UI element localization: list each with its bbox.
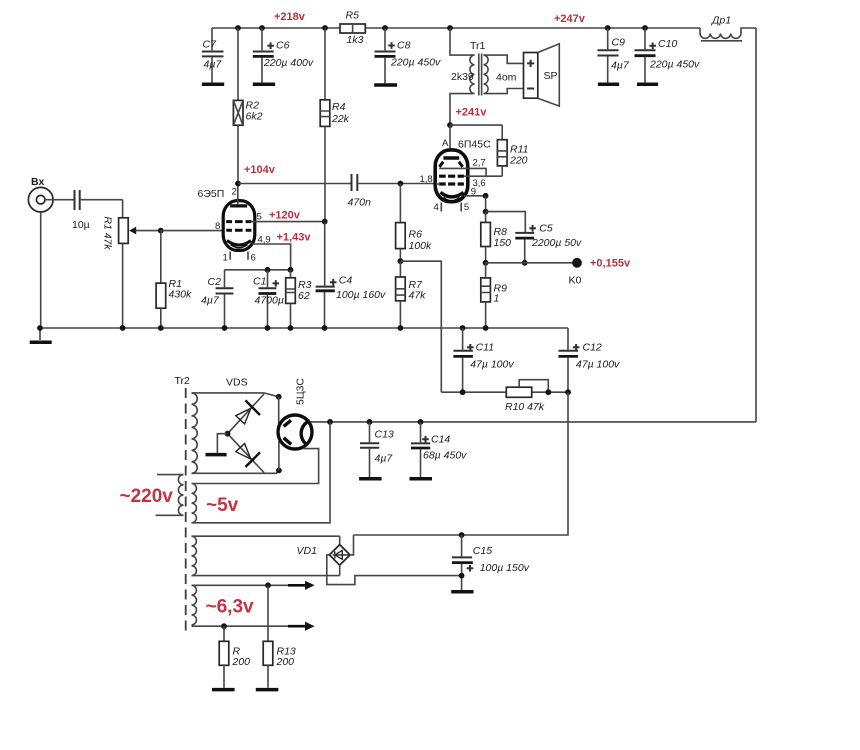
wire to C5 [486,212,526,232]
svg-text:4,9: 4,9 [258,235,271,246]
wire B+ column x568 [354,392,569,535]
svg-text:+104v: +104v [244,164,276,176]
node +104v [235,181,241,187]
svg-text:1,8: 1,8 [420,174,433,185]
node R6/R7 feedback junction [398,258,404,264]
node junction dot R2/rail [235,25,241,31]
wire bias top lead [192,535,340,537]
svg-text:5: 5 [257,212,262,223]
svg-text:1k3: 1k3 [347,34,364,46]
svg-text:430k: 430k [169,289,193,301]
wire 5v bottom to output [192,422,331,523]
resistor R1 430k [156,231,192,328]
wire HV top lead [192,393,279,397]
wire HV bottom lead [192,470,279,473]
wire +241v to R11 [450,124,502,126]
svg-text:Tr2: Tr2 [175,375,191,387]
transformer Tr1 [447,25,523,125]
resistor R 200 [212,626,250,689]
svg-text:9: 9 [471,186,476,197]
wire rectifier filament to 5v top [192,449,319,484]
svg-text:R6: R6 [409,229,423,241]
resistor R5 [340,10,365,47]
wire grid of first tube [158,228,164,234]
node K0 terminal [572,258,582,268]
node R8 bottom junction [483,260,489,266]
node ground rail junction Bx [37,325,43,331]
tube V2 6P45S outline [435,138,491,202]
node grid V2 junction [398,181,404,187]
svg-text:2200µ 50v: 2200µ 50v [531,237,582,249]
svg-text:+1,43v: +1,43v [277,232,312,244]
tube V1 6E5P outline [198,187,255,251]
svg-text:10µ: 10µ [72,219,90,231]
node ground rail junction R7 [398,325,404,331]
capacitor C1 [253,270,284,328]
svg-text:200: 200 [232,656,251,668]
wire 6.3v bottom lead [192,625,307,627]
node ground rail junction C2 [222,325,228,331]
node R13 tap junction [265,582,271,588]
svg-text:2k39: 2k39 [451,71,474,83]
transformer Tr2 5v winding [192,484,197,523]
connector Bx input [28,176,53,212]
svg-text:C11: C11 [476,342,494,354]
tube V1 heater pins 1,6 [230,252,248,260]
svg-text:220µ 450v: 220µ 450v [649,59,700,71]
capacitor C15 [451,532,530,592]
transformer Tr2 core [185,388,187,632]
wire R10 row [441,391,568,393]
capacitor C8 [374,25,441,85]
svg-text:C12: C12 [583,342,602,354]
svg-text:A: A [442,138,449,149]
arrow 6.3v bottom [288,622,315,631]
svg-text:C6: C6 [276,40,290,52]
node cathode V2 [483,193,489,199]
speaker SP [524,44,560,106]
svg-text:+120v: +120v [269,210,301,222]
svg-text:Др1: Др1 [711,15,731,27]
tube V1 grid2 dashes [226,220,251,223]
transformer Tr2 6.3v winding [192,585,197,625]
potentiometer R10 [505,380,551,413]
capacitor 10u coupling [45,190,123,231]
svg-text:VD1: VD1 [297,545,317,557]
svg-text:4700µ: 4700µ [255,295,284,307]
svg-text:150: 150 [494,237,512,249]
svg-text:4µ7: 4µ7 [375,453,394,465]
svg-text:2,7: 2,7 [473,158,486,169]
svg-text:4µ7: 4µ7 [201,295,220,307]
capacitor C5 [515,223,582,263]
svg-text:C14: C14 [431,434,450,446]
svg-text:C1: C1 [253,276,266,288]
ground VDS [206,434,228,455]
capacitor C4 [316,222,386,328]
capacitor C6 [253,25,314,84]
node C14 junction [418,419,424,425]
node ground rail junction C4 [322,325,328,331]
capacitor C2 [201,270,233,328]
node C13 junction [367,419,373,425]
svg-text:6П45С: 6П45С [458,139,491,151]
resistor R7 [396,261,427,328]
svg-text:22k: 22k [331,113,350,125]
svg-text:C15: C15 [473,545,492,557]
tube V2 grid2 dashes [439,175,464,178]
svg-text:470n: 470n [348,197,372,209]
ground rail [40,327,568,329]
svg-text:4µ7: 4µ7 [611,60,630,72]
transformer Tr2 HV winding [192,393,198,473]
wire 6.3v top lead [192,584,307,586]
node ground rail junction R1 [158,325,164,331]
svg-text:C10: C10 [658,38,677,50]
wire anode lead V2 [449,125,451,156]
arrow 6.3v top [288,581,315,590]
svg-text:100k: 100k [409,240,433,252]
tube V1 anode lead [237,184,239,205]
svg-text:200: 200 [276,656,295,668]
tube V1 cathode arcs [227,241,251,246]
svg-text:68µ 450v: 68µ 450v [423,450,467,462]
svg-text:R5: R5 [346,10,360,22]
tube V2 grid1 dashes [439,182,464,185]
svg-text:C2: C2 [208,276,222,288]
svg-text:47µ 100v: 47µ 100v [576,359,620,371]
svg-text:~5v: ~5v [206,495,239,516]
inductor choke Dr1 [700,15,756,41]
svg-text:+0,155v: +0,155v [590,258,631,270]
tube V1 anode bar [230,204,247,207]
svg-text:4om: 4om [496,72,517,84]
tube V2 anode bar [443,156,459,159]
resistor R6 [396,184,432,262]
wire cathode network row [225,269,291,271]
wire Bx shield to ground [40,212,42,328]
diode VDS top [228,394,265,434]
svg-text:Tr1: Tr1 [470,40,486,52]
wire PSU output row [307,421,756,423]
svg-text:Вх: Вх [31,176,44,188]
wire anode to coupling cap [238,183,351,185]
tube V2 cathode arcs [441,192,464,197]
wire screen pin 3,6 [464,175,502,177]
svg-text:6: 6 [251,253,256,264]
svg-text:+241v: +241v [456,107,488,119]
svg-text:47µ 100v: 47µ 100v [470,359,514,371]
svg-text:+218v: +218v [274,11,306,23]
svg-text:1: 1 [494,293,500,305]
node ground rail junction R9 [483,325,489,331]
svg-text:~6,3v: ~6,3v [206,597,255,618]
wire screen grid V1 +120v [252,221,325,223]
svg-text:100µ 150v: 100µ 150v [480,562,530,574]
svg-text:62: 62 [298,290,310,302]
resistor R3 [286,270,312,328]
ground symbol left [30,328,52,342]
resistor R4 [320,25,349,222]
svg-text:6Э5П: 6Э5П [198,188,225,200]
svg-text:C4: C4 [339,275,353,287]
wire B+ top rail [212,27,700,29]
node ground rail junction C1 [265,325,271,331]
svg-text:C7: C7 [203,39,218,51]
svg-text:6k2: 6k2 [246,111,263,123]
capacitor C12 [559,328,621,392]
node ground rail junction R1 pot [120,325,126,331]
capacitor C10 [635,25,701,84]
svg-text:C13: C13 [375,429,394,441]
resistor R11 [497,125,528,176]
svg-text:SP: SP [544,70,558,82]
svg-text:C9: C9 [612,37,626,49]
wire right B+ drop [755,28,757,422]
wire cathode pin 9 [464,195,486,197]
potentiometer R1 47k [102,200,161,328]
svg-text:47k: 47k [409,290,427,302]
svg-text:8: 8 [215,221,220,232]
tube V2 beam plates [439,162,462,167]
node C5 bottom junction [522,260,528,266]
capacitor C13 [359,422,394,479]
capacitor C14 [410,422,468,479]
node ground rail junction R3 [288,325,294,331]
resistor R13 200 [256,585,296,689]
svg-text:R10 47k: R10 47k [505,401,545,413]
svg-text:R4: R4 [332,101,346,113]
svg-text:C8: C8 [397,40,411,52]
capacitor C9 [598,25,630,84]
wire cathode V1 [252,244,291,270]
resistor R2 [233,28,262,184]
node VDS anodes [225,431,231,437]
svg-text:4µ7: 4µ7 [204,59,223,71]
capacitor C11 [453,325,514,392]
capacitor C7 [202,28,224,84]
transformer Tr2 bias winding [192,536,197,575]
capacitor 470n [348,174,437,209]
tube V2 heater pins 4,5 [441,203,461,212]
node rectifier output junction [327,419,333,425]
svg-text:R1 47k: R1 47k [102,216,114,250]
svg-text:4: 4 [434,202,439,213]
svg-text:5Ц3С: 5Ц3С [295,378,307,405]
tube V3 5Ts3S rectifier [278,378,312,449]
svg-text:2: 2 [232,187,237,198]
wire grid1 pin 1,8 [436,183,440,185]
svg-text:220: 220 [509,155,528,167]
diode VDS bottom [228,434,265,473]
svg-text:C5: C5 [539,223,553,235]
svg-text:220µ 400v: 220µ 400v [263,57,314,69]
wire feedback branch [400,261,441,392]
transformer Tr2 primary winding [120,475,184,516]
resistor R9 [481,263,507,328]
node C12 bottom junction [565,389,571,395]
wire bias bottom lead [192,575,340,577]
svg-text:~220v: ~220v [120,486,174,507]
svg-text:+247v: +247v [554,13,586,25]
svg-text:1: 1 [223,253,228,264]
svg-text:K0: K0 [569,275,582,287]
wire grid3 pin 2,7 [439,168,486,176]
wire to K0 [486,262,573,264]
svg-text:5: 5 [464,202,469,213]
node R tap junction [221,623,227,629]
resistor R8 [481,212,511,263]
tube V1 grid1 dashes [226,229,251,232]
svg-text:VDS: VDS [226,377,248,389]
svg-text:220µ 450v: 220µ 450v [390,57,441,69]
bridge VD1 [297,535,462,585]
node +241v [447,122,453,128]
svg-text:100µ 160v: 100µ 160v [336,289,386,301]
